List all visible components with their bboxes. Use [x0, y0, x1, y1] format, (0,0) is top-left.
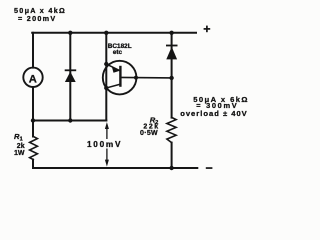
- node base lead / right branch: [169, 76, 173, 80]
- resistor R1 zigzag: [30, 136, 38, 159]
- node top rail / right branch: [169, 31, 173, 35]
- diode D1 triangle: [65, 72, 76, 82]
- wire diode D1 branch vertical: [69, 33, 71, 121]
- wire left vertical below R1: [32, 160, 34, 168]
- node top rail / transistor branch: [104, 31, 108, 35]
- diode D2 triangle: [166, 47, 177, 60]
- node middle wire / D1: [68, 118, 72, 122]
- svg-text:etc: etc: [113, 49, 123, 56]
- wire right vertical below R2: [171, 143, 173, 168]
- svg-text:= 200mV: = 200mV: [18, 14, 56, 23]
- dimension arrow 100mV upper head: [105, 122, 109, 129]
- transistor Q1 emitter lead: [106, 64, 120, 71]
- transistor Q1 emitter arrowhead: [112, 66, 120, 73]
- svg-text:0·5W: 0·5W: [140, 130, 158, 137]
- wire top rail: [32, 32, 196, 34]
- dimension arrow 100mV lower shaft: [106, 148, 108, 161]
- svg-text:1W: 1W: [14, 150, 25, 157]
- wire left vertical below ammeter: [32, 87, 34, 136]
- transistor Q1 circle: [103, 61, 137, 95]
- wire left vertical upper: [32, 33, 34, 68]
- dimension arrow 100mV lower head: [105, 160, 109, 167]
- resistor R2 zigzag: [167, 117, 176, 142]
- node bottom rail / right branch: [169, 166, 173, 170]
- node middle wire / left branch: [31, 118, 35, 122]
- wire transistor branch vertical: [105, 33, 107, 121]
- ammeter M1 circle: [23, 68, 42, 87]
- transistor Q1 base bar: [119, 67, 121, 86]
- svg-text:overload ± 40V: overload ± 40V: [180, 109, 248, 118]
- dimension arrow 100mV upper shaft: [106, 127, 108, 139]
- wire middle horizontal: [33, 119, 106, 121]
- svg-text:A: A: [29, 73, 37, 85]
- transistor Q1 collector lead: [106, 84, 120, 88]
- svg-text:100mV: 100mV: [87, 140, 122, 149]
- wire base lead to right branch: [120, 76, 171, 79]
- minus terminal: [206, 167, 213, 169]
- svg-text:2k: 2k: [17, 143, 25, 150]
- svg-text:1: 1: [20, 136, 23, 142]
- node collector / left branch: [104, 86, 108, 90]
- node emitter / left branch: [104, 62, 108, 66]
- wire right branch vertical: [171, 33, 173, 118]
- plus terminal: [204, 26, 211, 33]
- wire bottom rail: [33, 167, 197, 169]
- node top rail / D1: [68, 31, 72, 35]
- node base lead / circle edge: [134, 76, 138, 80]
- diode D1 cathode bar: [65, 69, 77, 71]
- diode D2 cathode bar: [166, 45, 178, 47]
